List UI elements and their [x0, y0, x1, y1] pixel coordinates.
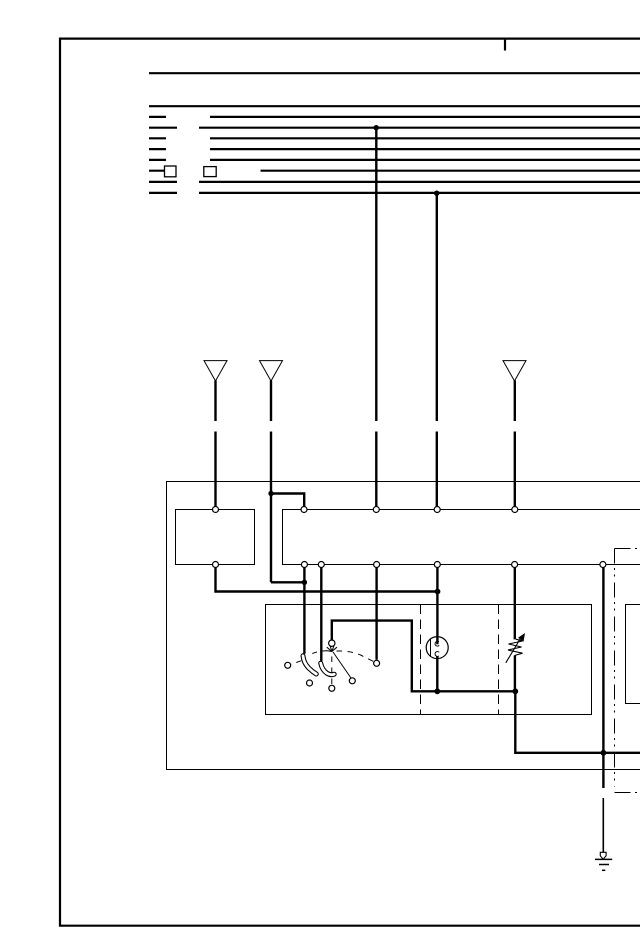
wire W1 upper — [214, 381, 216, 422]
bus wire row 9 — [149, 192, 640, 194]
dashed divider 2 — [498, 605, 500, 715]
switch dashed link right — [337, 651, 375, 662]
right inner box — [626, 605, 640, 704]
pin B1 top — [213, 507, 219, 513]
bus wire row 1 — [149, 105, 640, 107]
pin B2 bottom c — [374, 562, 380, 568]
unit big box — [167, 482, 640, 770]
ground wire — [602, 798, 604, 853]
pin B2 top d — [512, 507, 518, 513]
switch contact arc A — [303, 656, 316, 674]
dash-dot bracket vertical — [614, 549, 616, 788]
wire W4 upper — [436, 193, 438, 421]
junction at W4 lower join — [435, 589, 441, 595]
sub box B2 — [283, 510, 640, 565]
switch wiper arm line — [333, 652, 351, 678]
wire W3 lower — [375, 432, 377, 508]
wire to switch terminal — [375, 568, 377, 660]
wire W2 bottom link — [271, 581, 304, 583]
rheostat bottom wire — [514, 656, 516, 692]
bus wire row 2 — [149, 116, 640, 118]
pin B2 bottom a — [301, 562, 307, 568]
pin B2 top a — [301, 507, 307, 513]
switch contact circle 4 — [349, 678, 355, 684]
switch dashed link left — [292, 651, 328, 664]
bus wire row 0 — [149, 72, 640, 74]
junction W2 link — [302, 580, 307, 585]
bus wire row 3 — [149, 127, 640, 129]
switch contact circle 1 — [285, 662, 291, 668]
pin B2 bottom d — [434, 562, 440, 568]
bulb bottom hook — [435, 652, 439, 657]
rheostat zigzag — [508, 639, 523, 655]
bus wire row 7 — [149, 170, 640, 172]
wire W2 upper — [270, 381, 272, 422]
wire W5 lower — [514, 432, 516, 508]
bulb top hook — [435, 641, 439, 646]
rheostat arrowhead — [518, 633, 525, 642]
ground bar 3 — [602, 869, 605, 871]
dash-dot bracket bottom arm — [615, 792, 640, 794]
switch hub wire L — [332, 621, 640, 753]
wire W5 upper — [514, 381, 516, 422]
switch contact arc B — [321, 663, 335, 675]
rheostat arrow — [506, 638, 521, 663]
pin B2 bottom e — [512, 562, 518, 568]
wire from B1 bottom — [216, 568, 438, 592]
connector square S2 — [204, 167, 216, 177]
junction bulb bottom — [434, 688, 440, 694]
junction on row 9 — [434, 191, 439, 196]
wire to switch contact A — [303, 568, 305, 654]
wire W2 branch to pin — [271, 494, 304, 507]
bulb chord — [430, 640, 432, 657]
bulb circle — [426, 637, 448, 659]
wire to ground branch — [602, 568, 604, 789]
wire to bulb — [436, 568, 438, 645]
wire W1 lower — [214, 432, 216, 508]
pin B2 bottom f — [600, 562, 606, 568]
pin B1 bottom — [213, 562, 219, 568]
bulb bottom wire — [436, 657, 438, 692]
switch contact circle 2 — [307, 680, 313, 686]
pin B2 bottom b — [318, 562, 324, 568]
pin B2 top c — [434, 507, 440, 513]
triangle connector T2 — [260, 361, 283, 381]
ground bar 2 — [599, 864, 609, 866]
switch contact circle 5 — [374, 660, 380, 666]
dashed divider 1 — [420, 605, 422, 715]
junction ground branch — [601, 750, 607, 756]
switch hub circle — [329, 640, 335, 646]
junction rheostat bottom — [512, 688, 518, 694]
dash-dot bracket top arm — [615, 548, 640, 550]
ground arrow glyph — [600, 852, 606, 859]
switch dashed link down — [331, 657, 333, 686]
connector square S1 — [165, 166, 177, 177]
wire W2 lower — [270, 432, 272, 583]
wire W4 lower — [436, 432, 438, 508]
ground bar 1 — [595, 858, 612, 860]
pin B2 top b — [373, 507, 379, 513]
bus wire row 5 — [149, 148, 640, 150]
wire to rheostat — [514, 568, 516, 640]
wire W3 upper — [375, 128, 377, 421]
sub box B1 — [176, 510, 255, 565]
inner component box — [266, 605, 592, 715]
border tick mark — [504, 40, 506, 51]
switch pivot ticks — [327, 646, 337, 652]
junction W2 branch — [268, 491, 273, 496]
bus wire row 6 — [149, 159, 640, 161]
triangle connector T3 — [503, 361, 526, 381]
switch contact circle 3 — [329, 685, 335, 691]
bus wire row 4 — [149, 137, 640, 139]
junction on row 3 — [374, 125, 379, 130]
wire to switch contact B — [320, 568, 322, 662]
bus wire row 8 — [149, 181, 640, 183]
triangle connector T1 — [204, 361, 227, 381]
